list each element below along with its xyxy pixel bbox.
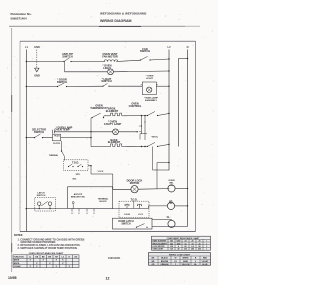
svg-text:LOCK: LOCK xyxy=(138,214,144,216)
svg-text:N: N xyxy=(187,45,189,49)
svg-text:THERMAL: THERMAL xyxy=(49,154,59,157)
svg-text:OVEN TEMP: OVEN TEMP xyxy=(54,128,70,132)
svg-text:MTR.: MTR. xyxy=(76,174,81,176)
svg-text:CONTROL: CONTROL xyxy=(129,104,142,108)
svg-text:ELEMENT: ELEMENT xyxy=(106,109,119,113)
svg-text:ELEMENT: ELEMENT xyxy=(108,140,121,144)
svg-text:T.O.D.: T.O.D. xyxy=(72,161,79,164)
svg-text:LIGHT: LIGHT xyxy=(103,66,111,70)
svg-text:CL.: CL. xyxy=(167,216,171,219)
svg-text:CLOCK: CLOCK xyxy=(53,143,61,145)
svg-text:WEF350SAWA & WEF350SAWB: WEF350SAWA & WEF350SAWB xyxy=(100,12,147,16)
svg-text:BLOCK: BLOCK xyxy=(99,201,107,203)
svg-text:SWITCH: SWITCH xyxy=(57,80,67,84)
svg-text:LIGHT: LIGHT xyxy=(146,78,153,80)
svg-text:SWITCH: SWITCH xyxy=(121,223,130,225)
svg-text:MOTOR: MOTOR xyxy=(130,181,140,185)
svg-text:IND.: IND. xyxy=(169,183,174,185)
svg-text:316011951: 316011951 xyxy=(108,257,121,260)
svg-text:NOTES:: NOTES: xyxy=(14,234,23,237)
svg-text:5995271404: 5995271404 xyxy=(11,17,27,21)
svg-text:FAN MOTOR: FAN MOTOR xyxy=(102,55,118,59)
svg-text:SWITCH: SWITCH xyxy=(37,195,46,197)
svg-text:SWITCH: SWITCH xyxy=(101,79,111,83)
svg-text:10/95: 10/95 xyxy=(8,276,17,280)
svg-text:WIRING DIAGRAM: WIRING DIAGRAM xyxy=(100,19,132,23)
svg-text:ASSEMBLY: ASSEMBLY xyxy=(145,99,157,102)
svg-text:3. SWITCHES SHOWN AT ROOM TEM: 3. SWITCHES SHOWN AT ROOM TEMP. POSITION… xyxy=(18,247,78,250)
svg-text:GND: GND xyxy=(34,45,40,49)
svg-text:* BROIL: * BROIL xyxy=(151,136,159,138)
svg-text:* LOCK: * LOCK xyxy=(97,171,104,173)
svg-text:SWITCH: SWITCH xyxy=(140,49,150,53)
svg-text:BRACKET SW.: BRACKET SW. xyxy=(71,196,85,199)
svg-text:T.O.D.: T.O.D. xyxy=(130,198,137,201)
svg-text:PLUG: PLUG xyxy=(54,136,60,138)
svg-text:SWITCH: SWITCH xyxy=(34,130,44,134)
svg-text:SWITCH: SWITCH xyxy=(62,55,72,59)
svg-text:OVEN CIRCUIT ANALYSIS CHART: OVEN CIRCUIT ANALYSIS CHART xyxy=(29,252,64,255)
svg-text:CAVITY LAMP: CAVITY LAMP xyxy=(104,122,122,126)
svg-text:Publication No.: Publication No. xyxy=(11,12,32,16)
svg-text:CLEAN: CLEAN xyxy=(124,213,131,216)
svg-text:12: 12 xyxy=(106,277,110,281)
svg-text:GND: GND xyxy=(34,74,40,77)
